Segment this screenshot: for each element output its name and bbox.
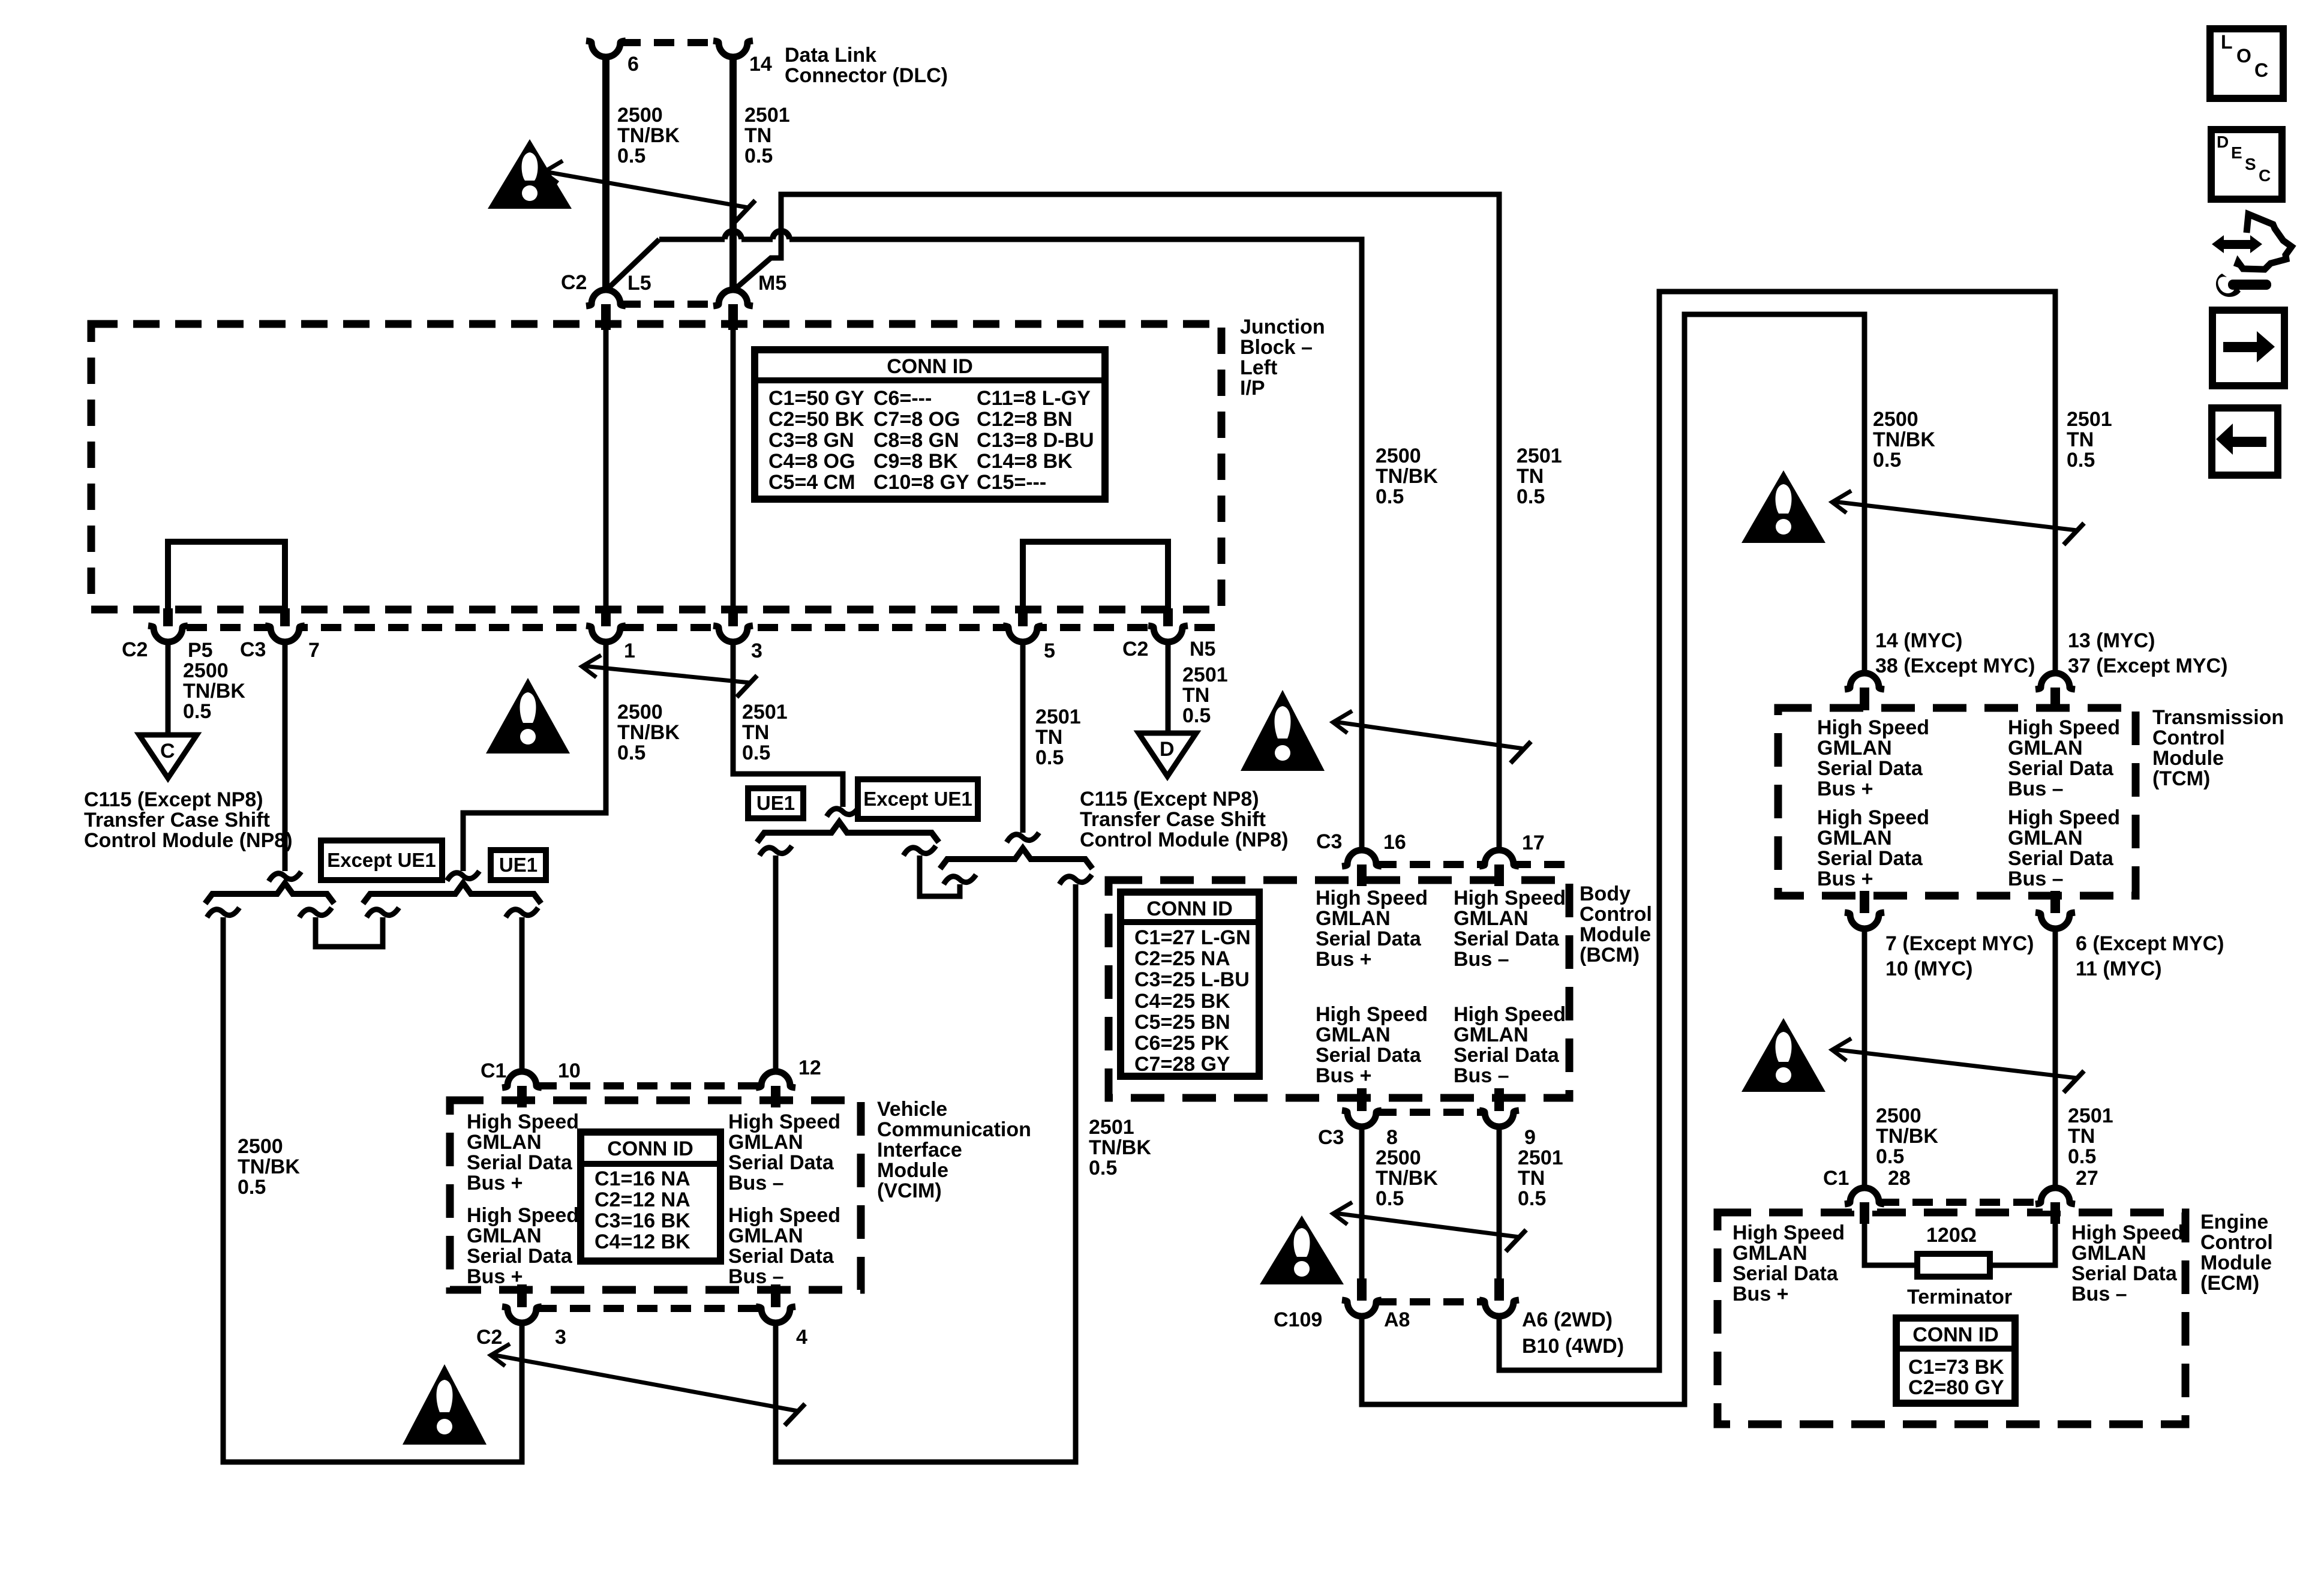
svg-text:2501: 2501: [1089, 1116, 1134, 1139]
svg-text:C8=8 GN: C8=8 GN: [873, 429, 959, 452]
svg-text:C4=12 BK: C4=12 BK: [594, 1230, 690, 1253]
svg-text:14 (MYC): 14 (MYC): [1875, 629, 1962, 652]
svg-text:Transfer Case Shift: Transfer Case Shift: [84, 809, 270, 831]
connector TCM 6-11 (pin+arc): [2043, 906, 2068, 914]
svg-text:O: O: [2236, 45, 2251, 67]
svg-text:C: C: [2259, 166, 2271, 185]
svg-text:C1=73 BK: C1=73 BK: [1908, 1356, 2004, 1379]
wire UE1 2501 down to VCIM 12: [773, 855, 779, 1073]
svg-text:C1: C1: [481, 1059, 506, 1082]
svg-text:2501: 2501: [2067, 408, 2112, 431]
svg-text:High Speed: High Speed: [1817, 716, 1929, 739]
wire 2501 long path VCIM 4 to split: [776, 884, 1076, 1462]
svg-text:0.5: 0.5: [238, 1176, 266, 1199]
wire terminator to ECM27: [1989, 1224, 2055, 1265]
svg-text:38 (Except MYC): 38 (Except MYC): [1875, 655, 2035, 677]
connector VCIM C1 10 (arc+pin): [509, 1086, 535, 1094]
svg-text:C2: C2: [476, 1326, 502, 1349]
wire BCM8 to C109 A8: [1359, 1127, 1365, 1281]
svg-text:C2=12 NA: C2=12 NA: [594, 1188, 690, 1211]
icon forward arrow box: [2212, 310, 2284, 386]
svg-text:3: 3: [751, 640, 762, 662]
connector C2 L5 (arc+pin): [593, 304, 618, 313]
svg-text:(VCIM): (VCIM): [877, 1179, 942, 1202]
svg-text:2500: 2500: [1876, 1104, 1921, 1127]
svg-text:Bus –: Bus –: [728, 1265, 784, 1288]
svg-text:Body: Body: [1580, 882, 1631, 905]
svg-text:CONN ID: CONN ID: [607, 1137, 693, 1160]
connector BCM 9 (pin+arc): [1487, 1104, 1512, 1112]
warning triangle DLC note: [488, 139, 572, 209]
svg-text:Serial Data: Serial Data: [2008, 757, 2114, 780]
svg-text:Junction: Junction: [1240, 316, 1325, 338]
svg-text:GMLAN: GMLAN: [467, 1131, 542, 1154]
svg-text:C7=28 GY: C7=28 GY: [1134, 1053, 1230, 1076]
BCM bottom connector dashed line: [1376, 1109, 1485, 1116]
warning triangle VCIM note: [403, 1364, 487, 1445]
svg-text:High Speed: High Speed: [728, 1204, 840, 1227]
svg-text:Module: Module: [1580, 923, 1651, 946]
connector junction pin 5 (pin+arc): [1010, 619, 1035, 628]
label box UE1 (mid): [748, 788, 803, 818]
VCIM dashed box: [450, 1100, 861, 1290]
pointer line junction note: [583, 666, 750, 683]
svg-text:37 (Except MYC): 37 (Except MYC): [2068, 655, 2227, 677]
warning triangle TCM note: [1742, 470, 1825, 543]
connector TCM 13-37 (arc+pin): [2043, 688, 2068, 696]
wire 2501 A6 up-and-over to TCM13: [1499, 292, 2055, 1370]
warning triangle C109 note: [1260, 1215, 1344, 1284]
svg-text:2501: 2501: [1182, 664, 1228, 686]
svg-text:L5: L5: [627, 272, 651, 295]
svg-text:10: 10: [558, 1059, 581, 1082]
svg-text:E: E: [2231, 143, 2242, 162]
svg-text:GMLAN: GMLAN: [728, 1131, 803, 1154]
svg-text:Except UE1: Except UE1: [863, 788, 972, 810]
svg-text:Serial Data: Serial Data: [2071, 1262, 2178, 1285]
svg-text:Module: Module: [2200, 1251, 2272, 1274]
wire Except-UE1 2500 long path to VCIM C2-3: [223, 917, 522, 1462]
connector TCM 14-38 (arc+pin): [1852, 688, 1877, 696]
svg-text:Bus +: Bus +: [1316, 948, 1372, 971]
svg-text:High Speed: High Speed: [2008, 716, 2120, 739]
svg-text:GMLAN: GMLAN: [2071, 1242, 2146, 1265]
svg-text:TN/BK: TN/BK: [617, 124, 680, 147]
svg-text:B10 (4WD): B10 (4WD): [1522, 1335, 1624, 1358]
svg-text:C6=---: C6=---: [873, 387, 932, 410]
connector VCIM C2 3 (pin+arc): [509, 1300, 535, 1308]
svg-text:High Speed: High Speed: [467, 1204, 579, 1227]
wire TCM7-10 to ECM28: [1862, 929, 1867, 1189]
svg-text:Communication: Communication: [877, 1118, 1031, 1141]
svg-text:GMLAN: GMLAN: [1817, 827, 1892, 849]
svg-text:0.5: 0.5: [617, 742, 645, 764]
svg-text:Transfer Case Shift: Transfer Case Shift: [1080, 808, 1266, 831]
svg-text:11 (MYC): 11 (MYC): [2076, 957, 2162, 980]
BCM dashed box: [1109, 880, 1569, 1098]
svg-text:TN/BK: TN/BK: [1376, 1167, 1438, 1190]
svg-text:C13=8 D-BU: C13=8 D-BU: [977, 429, 1094, 452]
svg-text:TN: TN: [1517, 465, 1544, 488]
svg-text:10 (MYC): 10 (MYC): [1885, 957, 1972, 980]
svg-text:TN/BK: TN/BK: [1089, 1136, 1151, 1159]
svg-text:27: 27: [2076, 1167, 2098, 1190]
svg-text:C1: C1: [1823, 1167, 1849, 1190]
connector junction C2 N5 (pin+arc): [1155, 619, 1181, 628]
svg-text:C3: C3: [1316, 830, 1342, 853]
svg-text:Connector (DLC): Connector (DLC): [785, 64, 948, 87]
svg-text:GMLAN: GMLAN: [1316, 907, 1391, 930]
svg-text:C2=50 BK: C2=50 BK: [768, 408, 864, 431]
svg-text:C2=25 NA: C2=25 NA: [1134, 947, 1230, 970]
connector junction pin 1 (pin+arc): [593, 619, 618, 628]
svg-text:L: L: [2221, 31, 2233, 53]
warning triangle junction note: [486, 678, 570, 754]
ground symbol C: [139, 735, 197, 778]
svg-text:C115 (Except NP8): C115 (Except NP8): [1080, 788, 1259, 810]
VCIM top connector dashed line: [536, 1082, 761, 1089]
warning triangle BCM note: [1241, 690, 1325, 771]
svg-text:Bus –: Bus –: [2008, 778, 2064, 800]
wire 2500 bus: L5 to BCM16 with hops: [659, 237, 725, 242]
DLC bottom connector dashed line: [620, 301, 719, 308]
svg-text:Bus –: Bus –: [2008, 867, 2064, 890]
svg-text:2500: 2500: [238, 1135, 283, 1158]
svg-text:TN: TN: [742, 721, 769, 744]
svg-text:Bus +: Bus +: [467, 1172, 523, 1194]
wire break symbol pin5 wire break: [1007, 833, 1039, 842]
icon vehicle outline with wrench: [2212, 235, 2224, 253]
svg-text:High Speed: High Speed: [1316, 1003, 1428, 1026]
svg-text:TN/BK: TN/BK: [617, 721, 680, 744]
svg-text:C3=25 L-BU: C3=25 L-BU: [1134, 968, 1250, 991]
svg-text:2500: 2500: [617, 104, 663, 127]
pointer line VCIM note: [492, 1355, 798, 1411]
svg-text:High Speed: High Speed: [1733, 1221, 1845, 1244]
svg-text:GMLAN: GMLAN: [1454, 907, 1529, 930]
svg-text:A8: A8: [1384, 1308, 1410, 1331]
svg-text:C2: C2: [122, 638, 148, 661]
wire break symbol 2501 long wire break: [1059, 875, 1092, 884]
wire DLC pin 6 pigtail 2500: [602, 56, 609, 292]
svg-text:4: 4: [796, 1326, 807, 1349]
svg-text:2500: 2500: [617, 701, 663, 724]
connector C109 A6 B10 (pin+arc): [1487, 1293, 1512, 1302]
svg-text:D: D: [2217, 133, 2229, 151]
svg-text:Serial Data: Serial Data: [467, 1151, 573, 1174]
wire U-jumper mid cluster: [920, 855, 960, 896]
svg-text:Bus +: Bus +: [1817, 778, 1873, 800]
svg-text:GMLAN: GMLAN: [728, 1224, 803, 1247]
svg-text:P5: P5: [188, 639, 213, 662]
svg-text:D: D: [1160, 738, 1175, 761]
pointer line ECM note: [1833, 1049, 2077, 1078]
svg-text:TN/BK: TN/BK: [1873, 428, 1935, 451]
svg-text:(ECM): (ECM): [2200, 1272, 2259, 1295]
connector ECM 27 (arc+pin): [2043, 1202, 2068, 1211]
svg-text:High Speed: High Speed: [467, 1110, 579, 1133]
svg-text:6: 6: [627, 53, 639, 76]
svg-text:TN/BK: TN/BK: [238, 1155, 300, 1178]
svg-text:120Ω: 120Ω: [1926, 1224, 1977, 1247]
svg-text:CONN ID: CONN ID: [887, 355, 973, 378]
svg-text:7: 7: [308, 639, 320, 662]
icon back arrow box: [2212, 408, 2278, 475]
svg-text:0.5: 0.5: [1376, 1187, 1404, 1210]
svg-text:TN: TN: [2067, 428, 2094, 451]
svg-text:TN/BK: TN/BK: [1376, 465, 1438, 488]
wire break symbol U-jumper mid break b: [944, 875, 976, 884]
svg-text:C109: C109: [1274, 1308, 1322, 1331]
connector DLC pin 14 (arc): [719, 43, 747, 57]
svg-text:Terminator: Terminator: [1907, 1286, 2012, 1308]
svg-text:Serial Data: Serial Data: [1817, 847, 1923, 870]
VCIM bottom connector dashed line: [536, 1305, 761, 1312]
svg-text:Bus +: Bus +: [1817, 867, 1873, 890]
svg-text:C3=16 BK: C3=16 BK: [594, 1209, 690, 1232]
svg-text:0.5: 0.5: [183, 700, 211, 723]
connector ECM C1 28 (arc+pin): [1852, 1202, 1877, 1211]
svg-text:High Speed: High Speed: [1454, 1003, 1566, 1026]
icon LOC box: [2210, 29, 2283, 98]
svg-text:Control Module (NP8): Control Module (NP8): [84, 829, 293, 852]
svg-text:Data Link: Data Link: [785, 44, 876, 67]
svg-text:GMLAN: GMLAN: [467, 1224, 542, 1247]
svg-text:3: 3: [555, 1326, 566, 1349]
icon DESC box: [2211, 130, 2282, 199]
wire pin5 down to split: [1020, 641, 1026, 833]
wire break symbol U-jumper mid break a: [903, 846, 936, 855]
svg-text:9: 9: [1524, 1126, 1536, 1149]
svg-text:Serial Data: Serial Data: [728, 1245, 834, 1268]
wire break symbol pin3 wire break: [827, 807, 859, 816]
svg-text:7 (Except MYC): 7 (Except MYC): [1885, 932, 2034, 955]
svg-text:C14=8 BK: C14=8 BK: [977, 450, 1073, 473]
connector DLC pin 6 (arc): [591, 43, 620, 57]
svg-text:0.5: 0.5: [1517, 485, 1545, 508]
wire break symbol UE1 left wire break: [506, 908, 538, 917]
svg-text:Control: Control: [1580, 903, 1652, 926]
C109 connector dashed line: [1376, 1298, 1485, 1305]
svg-text:C4=25 BK: C4=25 BK: [1134, 990, 1230, 1013]
svg-text:8: 8: [1386, 1126, 1398, 1149]
svg-text:TN: TN: [1518, 1167, 1545, 1190]
svg-text:C1=50 GY: C1=50 GY: [768, 387, 864, 410]
svg-text:0.5: 0.5: [617, 145, 645, 167]
svg-text:6 (Except MYC): 6 (Except MYC): [2076, 932, 2224, 955]
wire break symbol pin7 wire break: [269, 872, 301, 881]
svg-text:CONN ID: CONN ID: [1912, 1323, 1999, 1346]
wire pin1 down jog to UE1 split: [463, 641, 606, 871]
svg-text:CONN ID: CONN ID: [1146, 897, 1233, 920]
label box Except UE1 (mid): [858, 779, 978, 819]
svg-text:C2: C2: [1122, 638, 1148, 661]
svg-text:0.5: 0.5: [744, 145, 773, 167]
wire pin3 down jog to UE1 split: [733, 641, 843, 807]
svg-text:C7=8 OG: C7=8 OG: [873, 408, 960, 431]
wire break symbol pin1 wire break: [447, 871, 479, 881]
brace split pin3 wire: [757, 822, 939, 842]
svg-text:Module: Module: [877, 1159, 948, 1182]
ECM top connector dashed line: [1879, 1199, 2041, 1206]
ECM dashed box: [1718, 1212, 2185, 1424]
svg-text:2500: 2500: [1376, 1146, 1421, 1169]
svg-text:Left: Left: [1240, 356, 1277, 379]
connector TCM 7-10 (pin+arc): [1852, 906, 1877, 914]
svg-text:Engine: Engine: [2200, 1211, 2268, 1233]
svg-text:TN: TN: [1035, 726, 1062, 749]
brace split pin7 wire: [205, 883, 334, 903]
svg-text:0.5: 0.5: [1876, 1145, 1904, 1168]
svg-text:C5=25 BN: C5=25 BN: [1134, 1011, 1230, 1034]
ground symbol D: [1139, 733, 1196, 776]
svg-text:2500: 2500: [183, 659, 229, 682]
svg-text:I/P: I/P: [1240, 377, 1265, 400]
pointer line DLC note: [545, 172, 748, 208]
svg-text:C3: C3: [240, 638, 266, 661]
connector BCM C3 8 (pin+arc): [1349, 1104, 1374, 1112]
wire UE1 2500 down to VCIM C1-10: [520, 917, 525, 1073]
connector BCM 17 (arc+pin): [1487, 864, 1512, 873]
svg-text:Serial Data: Serial Data: [1454, 1044, 1560, 1067]
connector junction pin 3 (pin+arc): [720, 619, 746, 628]
svg-text:TN: TN: [744, 124, 771, 147]
svg-text:TN/BK: TN/BK: [183, 680, 245, 703]
svg-text:C3: C3: [1318, 1126, 1344, 1149]
svg-text:2500: 2500: [1376, 445, 1421, 467]
svg-text:S: S: [2245, 155, 2256, 173]
connector junction C2 P5 (pin+arc): [155, 619, 181, 628]
svg-text:Bus +: Bus +: [1316, 1064, 1372, 1087]
svg-text:GMLAN: GMLAN: [1454, 1023, 1529, 1046]
wire 2500 A8 up-and-over to TCM14: [1362, 314, 1864, 1404]
brace split pin5 wire: [940, 848, 1092, 869]
pointer line C109 note: [1334, 1213, 1519, 1237]
svg-text:UE1: UE1: [499, 854, 538, 876]
svg-text:High Speed: High Speed: [2071, 1221, 2184, 1244]
wire DLC pin 14 pigtail 2501: [729, 56, 737, 292]
svg-text:0.5: 0.5: [1182, 704, 1211, 727]
svg-text:TN: TN: [2068, 1125, 2095, 1148]
CONN ID table VCIM: [581, 1132, 720, 1261]
svg-text:Serial Data: Serial Data: [1454, 927, 1560, 950]
svg-text:C115 (Except NP8): C115 (Except NP8): [84, 788, 263, 811]
wire BCM9 to C109 A6: [1497, 1127, 1502, 1281]
svg-text:Serial Data: Serial Data: [467, 1245, 573, 1268]
connector BCM C3 16 (arc+pin): [1349, 864, 1374, 873]
CONN ID table BCM: [1121, 892, 1259, 1076]
svg-text:0.5: 0.5: [742, 742, 770, 764]
svg-text:0.5: 0.5: [2068, 1145, 2096, 1168]
connector junction C3 7 (pin+arc): [272, 619, 298, 628]
svg-text:C4=8 OG: C4=8 OG: [768, 450, 855, 473]
CONN ID table junction block: [755, 350, 1105, 499]
svg-text:UE1: UE1: [756, 792, 795, 814]
svg-text:High Speed: High Speed: [1817, 806, 1929, 829]
svg-text:C1=27 L-GN: C1=27 L-GN: [1134, 926, 1251, 949]
junction bottom connector dashed line: [153, 624, 1221, 631]
wire junction pass-through pin3: [731, 328, 736, 612]
wire L5 tap diagonal: [603, 239, 659, 293]
DLC top connector dashed line: [620, 39, 719, 46]
svg-text:C2=80 GY: C2=80 GY: [1908, 1376, 2004, 1399]
CONN ID table ECM: [1896, 1318, 2015, 1403]
svg-text:Serial Data: Serial Data: [1316, 927, 1422, 950]
svg-text:Serial Data: Serial Data: [1316, 1044, 1422, 1067]
svg-text:17: 17: [1522, 831, 1545, 854]
junction block - left I/P dashed box: [91, 324, 1221, 610]
warning triangle ECM note: [1742, 1018, 1825, 1092]
label box Except UE1 (left): [321, 840, 442, 880]
svg-text:A6 (2WD): A6 (2WD): [1522, 1308, 1613, 1331]
wire junction jumper P5-7: [168, 542, 285, 612]
svg-text:C6=25 PK: C6=25 PK: [1134, 1032, 1229, 1055]
wire break symbol UE1 mid wire break: [759, 846, 792, 855]
wire TCM6-11 to ECM27: [2053, 929, 2058, 1189]
svg-text:Bus –: Bus –: [1454, 1064, 1509, 1087]
svg-text:Vehicle: Vehicle: [877, 1098, 947, 1121]
svg-text:0.5: 0.5: [1035, 746, 1064, 769]
svg-text:Bus –: Bus –: [728, 1172, 784, 1194]
wire junction jumper 5-N5: [1023, 542, 1168, 612]
svg-text:C: C: [2254, 59, 2268, 81]
svg-text:2501: 2501: [742, 701, 788, 724]
svg-text:GMLAN: GMLAN: [1817, 737, 1892, 760]
pointer line BCM note: [1334, 722, 1524, 749]
svg-text:2500: 2500: [1873, 408, 1918, 431]
svg-text:Except UE1: Except UE1: [327, 849, 436, 871]
svg-text:2501: 2501: [1517, 445, 1562, 467]
connector VCIM 12 (arc+pin): [763, 1086, 788, 1094]
svg-text:Serial Data: Serial Data: [1817, 757, 1923, 780]
BCM top connector dashed line: [1376, 861, 1566, 868]
svg-text:Control: Control: [2152, 727, 2225, 749]
svg-text:0.5: 0.5: [1518, 1187, 1546, 1210]
svg-text:N5: N5: [1190, 638, 1215, 661]
svg-text:2501: 2501: [744, 104, 790, 127]
wire break symbol U-jumper left break a: [299, 908, 332, 917]
svg-text:2501: 2501: [2068, 1104, 2113, 1127]
svg-text:High Speed: High Speed: [728, 1110, 840, 1133]
connector M5 (arc+pin): [720, 304, 746, 313]
svg-text:Serial Data: Serial Data: [2008, 847, 2114, 870]
svg-text:0.5: 0.5: [1376, 485, 1404, 508]
svg-text:High Speed: High Speed: [1316, 887, 1428, 909]
svg-text:Serial Data: Serial Data: [728, 1151, 834, 1174]
svg-text:C12=8 BN: C12=8 BN: [977, 408, 1073, 431]
svg-text:C: C: [160, 740, 175, 763]
svg-text:Bus –: Bus –: [2071, 1283, 2127, 1305]
wire junction pass-through pin1: [603, 328, 609, 612]
svg-text:0.5: 0.5: [2067, 449, 2095, 472]
svg-text:C2: C2: [561, 271, 587, 294]
svg-text:C3=8 GN: C3=8 GN: [768, 429, 854, 452]
svg-text:Block –: Block –: [1240, 336, 1313, 359]
svg-text:Bus –: Bus –: [1454, 948, 1509, 971]
svg-text:Control: Control: [2200, 1231, 2273, 1254]
resistor 120 ohm terminator: [1917, 1254, 1990, 1277]
svg-text:GMLAN: GMLAN: [1316, 1023, 1391, 1046]
svg-text:Control Module (NP8): Control Module (NP8): [1080, 828, 1289, 851]
svg-text:High Speed: High Speed: [1454, 887, 1566, 909]
svg-text:C1=16 NA: C1=16 NA: [594, 1167, 690, 1190]
svg-text:Transmission: Transmission: [2152, 706, 2284, 729]
svg-text:1: 1: [624, 640, 635, 662]
svg-text:C5=4 CM: C5=4 CM: [768, 471, 855, 494]
svg-text:13 (MYC): 13 (MYC): [2068, 629, 2155, 652]
svg-text:2501: 2501: [1035, 706, 1081, 728]
wire break symbol Except UE1 left wire break: [207, 908, 239, 917]
